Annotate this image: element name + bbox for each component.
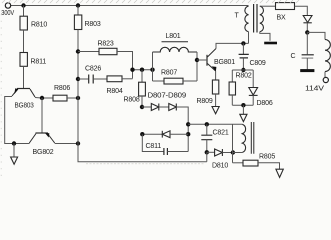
svg-text:C826: C826: [85, 66, 101, 73]
wire BG803 emitter to left rail: [5, 97, 30, 144]
connector arrow yoke top: [240, 114, 247, 121]
svg-text:C: C: [291, 53, 296, 60]
hatch border top: [2, 0, 299, 3]
wire R805 row: [233, 162, 244, 164]
svg-text:D806: D806: [257, 100, 273, 107]
fuse BX: [276, 3, 295, 10]
node junction rail at R806: [76, 96, 80, 100]
node junction collector C809: [241, 41, 245, 45]
diode D810: [207, 151, 215, 153]
node junction R802 loop top: [241, 68, 245, 72]
node junction rail C826: [76, 77, 80, 81]
wire C809 bottom: [242, 58, 244, 70]
wire diode to node: [306, 23, 308, 33]
resistor R823: [99, 48, 117, 54]
wire T secondary bottom to ground: [260, 32, 270, 41]
wire left branch down: [23, 6, 25, 17]
capacitor C: [306, 32, 308, 54]
wire choke to terminal: [324, 72, 326, 78]
diode D rectifier: [303, 16, 312, 23]
connector arrow bottom right: [276, 169, 283, 177]
node junction low right column: [186, 132, 190, 136]
node junction output: [305, 30, 309, 34]
node junction R806 left: [40, 96, 44, 100]
resistor R811: [20, 53, 27, 67]
resistor R808: [139, 82, 146, 96]
node junction rail R823: [76, 49, 80, 53]
wire stub to arrow: [13, 144, 15, 158]
wire mid row to yoke: [188, 123, 242, 125]
wire BG802 emitter to rail: [55, 143, 78, 145]
wire to yoke arrow: [242, 105, 244, 114]
wire R802 loop bottom: [232, 104, 253, 106]
node junction top rail at main rail: [76, 3, 80, 7]
T core: [254, 4, 257, 33]
node junction C821 top: [205, 122, 209, 126]
T secondary winding: [260, 6, 264, 32]
diode D809: [142, 133, 162, 135]
wire L801 loop left: [152, 52, 154, 81]
node junction coil bottom: [231, 150, 235, 154]
connector arrow down-left: [11, 157, 18, 164]
svg-text:R804: R804: [107, 88, 123, 95]
wire yoke bottom: [233, 152, 242, 154]
svg-text:R808: R808: [124, 97, 140, 104]
svg-text:R809: R809: [197, 98, 213, 105]
wire BG801 collector: [216, 43, 249, 48]
wire yoke left bypass: [232, 124, 234, 163]
node 300V terminal: [5, 3, 10, 8]
wire C821 node to bottom rail: [206, 152, 208, 161]
capacitor C809: [242, 43, 244, 54]
node 114V terminal: [323, 77, 328, 82]
node junction left bottom: [12, 141, 16, 145]
svg-text:BG803: BG803: [15, 103, 34, 110]
svg-text:BG801: BG801: [214, 59, 235, 66]
node junction on top rail: [21, 3, 25, 7]
svg-text:R802: R802: [236, 73, 252, 80]
svg-text:C821: C821: [213, 130, 229, 137]
svg-text:D810: D810: [212, 163, 228, 170]
svg-text:114V: 114V: [305, 86, 324, 93]
wire L801 loop right: [196, 52, 198, 81]
diode D808: [169, 104, 177, 111]
wire R808 top: [141, 70, 143, 83]
wire output to choke: [307, 32, 325, 39]
wire R804 to node column: [122, 78, 133, 80]
capacitor C821: [206, 124, 208, 135]
svg-text:R805: R805: [259, 154, 275, 161]
node junction D809 left: [140, 132, 144, 136]
wire R805 right: [258, 163, 280, 169]
resistor R804: [107, 76, 122, 82]
node junction mid right column: [186, 122, 190, 126]
wire BG802 base from R806 node: [41, 98, 43, 133]
wire top 300V rail: [11, 5, 249, 7]
node junction base wire: [195, 58, 199, 62]
ground bar secondary: [264, 42, 277, 45]
border left faint: [0, 14, 2, 176]
wire R823 row: [78, 51, 99, 53]
wire R823 to down node: [117, 52, 133, 79]
node junction rail bottom: [76, 141, 80, 145]
svg-text:R806: R806: [54, 85, 70, 92]
wire R811 to BG803 base: [23, 66, 25, 88]
resistor R807: [153, 80, 165, 82]
svg-text:R803: R803: [85, 21, 101, 28]
svg-text:C809: C809: [250, 60, 266, 67]
wire BG801 emitter: [215, 71, 217, 80]
node junction loop bottom: [241, 103, 245, 107]
choke coil right: [325, 40, 330, 72]
yoke coil vertical: [242, 124, 245, 152]
svg-text:300V: 300V: [1, 10, 14, 17]
node junction C: [150, 68, 154, 72]
transistor BG801: [207, 49, 216, 72]
wire BG803 collector to R806 row: [35, 97, 53, 100]
inductor L801: [153, 47, 198, 52]
wire R802 loop top: [232, 69, 253, 71]
wire C811 loop left: [142, 134, 163, 151]
wire node row: [133, 69, 153, 71]
capacitor C811: [164, 148, 168, 155]
diode D807: [142, 106, 151, 108]
ground bar C: [300, 69, 314, 72]
wire C821 bottom: [206, 140, 208, 153]
resistor R810: [20, 16, 27, 30]
svg-text:R807: R807: [161, 70, 177, 77]
wire fuse to diode: [295, 6, 308, 15]
resistor R802: [231, 70, 233, 82]
capacitor C826: [78, 78, 88, 80]
svg-text:BX: BX: [277, 15, 287, 22]
node junction diode row left: [140, 105, 144, 109]
node junction A: [130, 68, 134, 72]
wire R809 bottom: [215, 94, 217, 107]
resistor R805: [243, 160, 258, 166]
transistor BG802: [29, 133, 54, 143]
resistor R806: [53, 95, 67, 101]
wire T secondary top to fuse: [260, 5, 276, 7]
wire R810 to R811: [23, 30, 25, 53]
wire C826 to R804: [93, 78, 107, 80]
wire R808 bottom: [141, 96, 143, 107]
svg-text:R823: R823: [98, 41, 114, 48]
svg-text:C811: C811: [146, 143, 162, 150]
svg-text:L801: L801: [166, 33, 181, 40]
diode D806: [252, 70, 254, 88]
wire D810 to coil node: [222, 152, 233, 154]
resistor R803: [77, 6, 79, 16]
node junction D810 left: [205, 150, 209, 154]
yoke core: [251, 122, 254, 154]
wire D807 to D808: [159, 106, 169, 108]
connector arrow below R809: [212, 107, 219, 114]
svg-text:R810: R810: [31, 22, 47, 29]
svg-text:R811: R811: [31, 59, 47, 66]
svg-text:D807-D809: D807-D809: [148, 93, 187, 100]
transistor BG803: [12, 89, 35, 98]
wire base to BG801: [197, 59, 206, 61]
svg-text:BG802: BG802: [33, 149, 54, 156]
wire shadow bottom: [86, 163, 205, 165]
wire D808 to right column: [176, 107, 188, 152]
wire T primary bottom: [248, 32, 250, 44]
T primary winding: [245, 6, 249, 32]
wire main vertical rail: [78, 30, 207, 162]
wire C811 right: [167, 151, 188, 153]
node junction B: [140, 68, 144, 72]
resistor R809: [212, 80, 218, 94]
wire R806 to main rail: [67, 97, 78, 99]
